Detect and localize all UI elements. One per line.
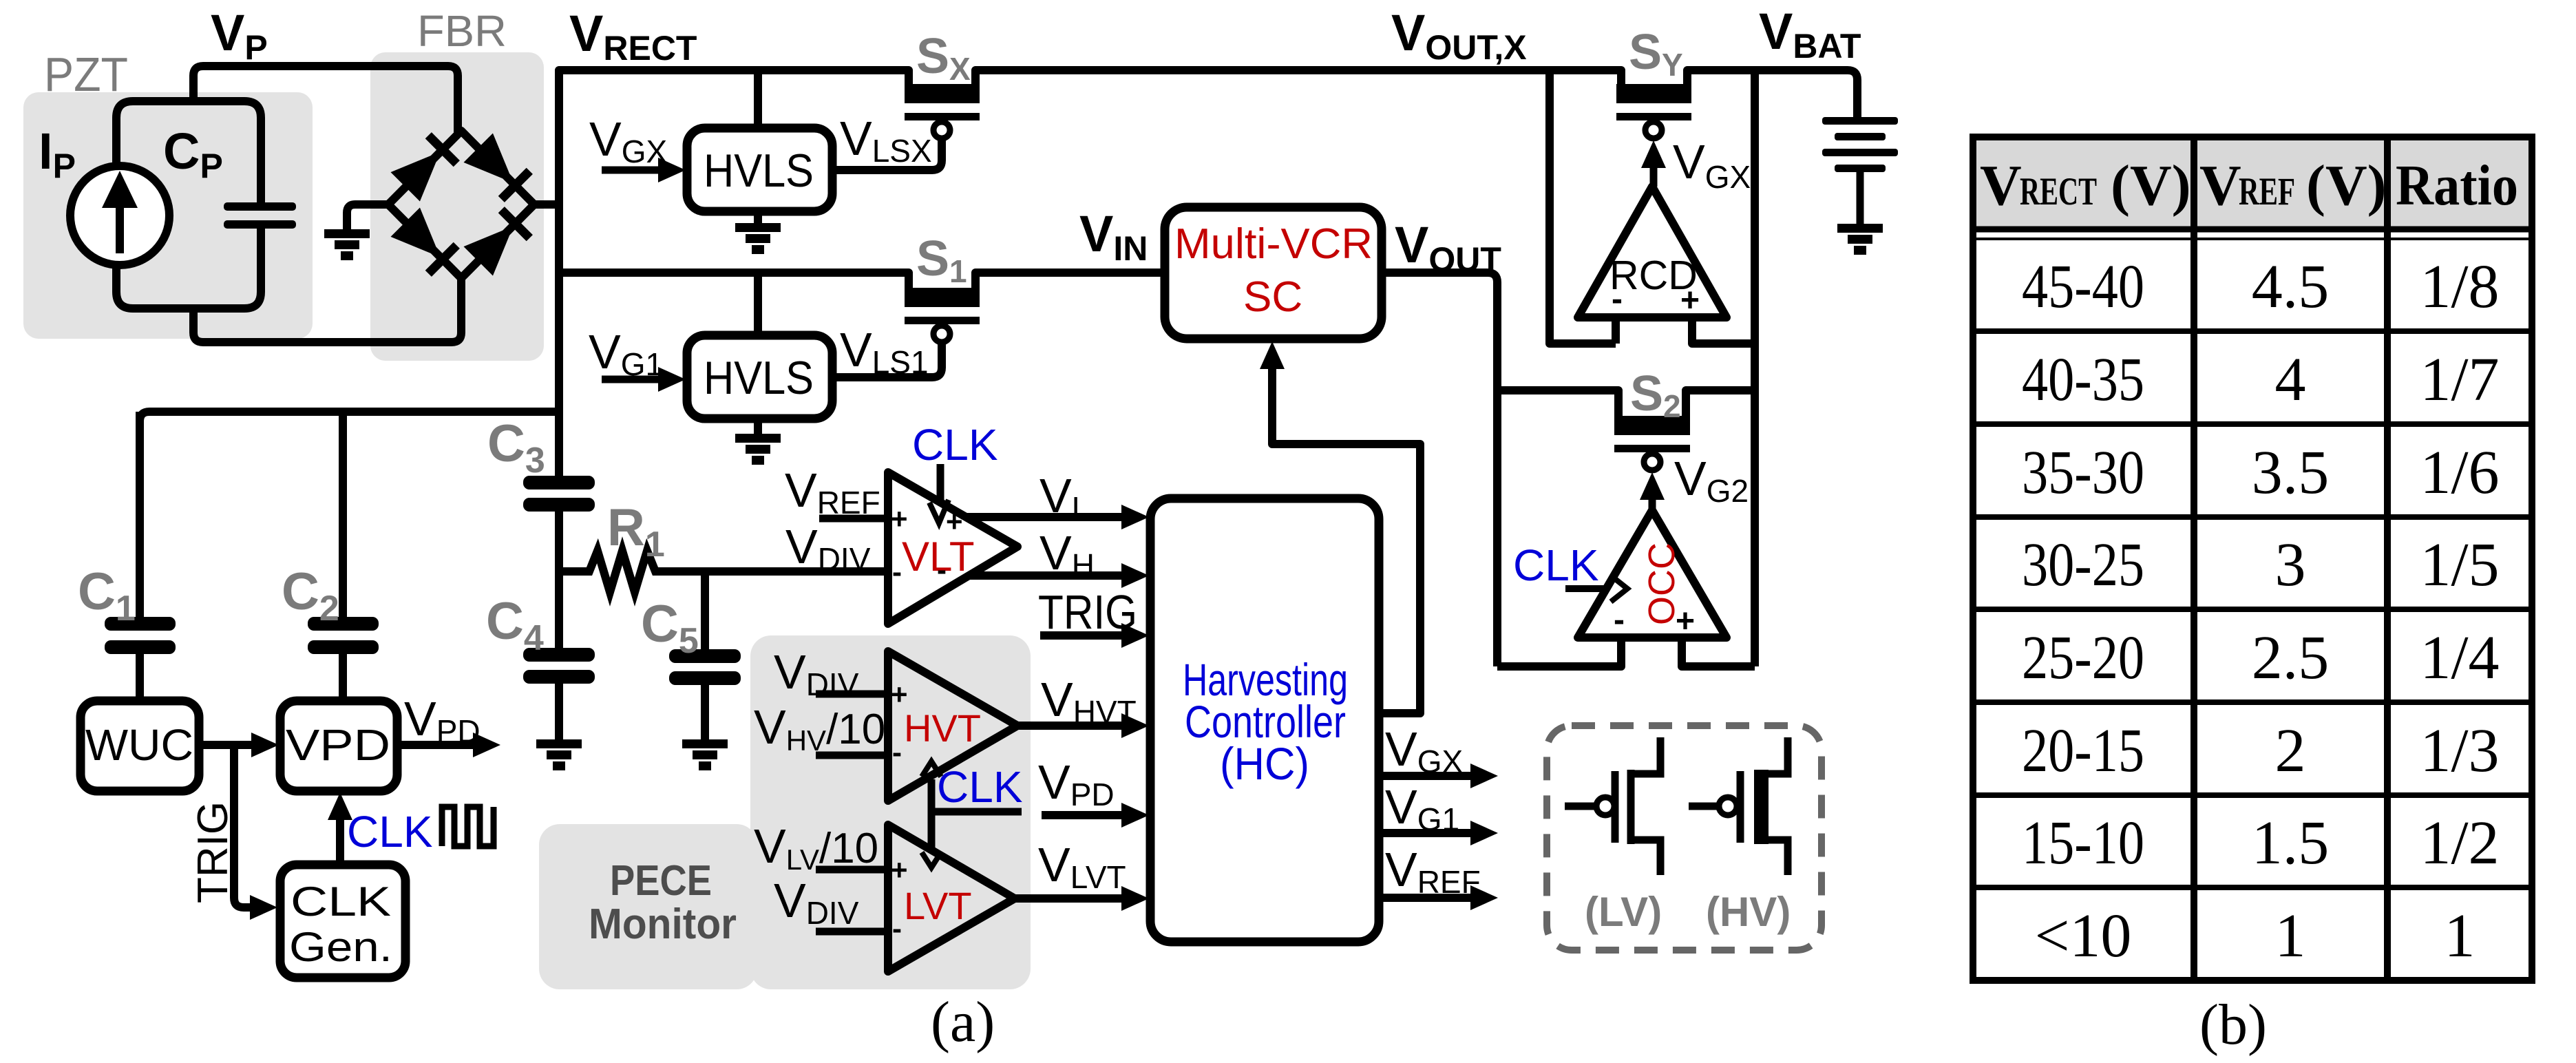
svg-text:40-35: 40-35 — [2022, 346, 2144, 414]
op-amp OCC — [1578, 510, 1727, 638]
svg-text:-: - — [892, 736, 902, 768]
table cells column1 — [2022, 253, 2144, 970]
wire VBAT bus vertical — [1751, 70, 1759, 666]
wire PZT bottom — [193, 277, 461, 342]
svg-text:1/4: 1/4 — [2420, 624, 2499, 692]
transistor SX gate bubble — [933, 122, 950, 138]
ground FBR — [324, 229, 370, 260]
wire CLK horizontal stub — [931, 808, 1022, 816]
svg-text:CLK: CLK — [347, 807, 433, 856]
transistor SY gate bubble — [1645, 122, 1662, 138]
svg-text:25-20: 25-20 — [2022, 624, 2144, 692]
svg-text:FBR: FBR — [417, 6, 507, 56]
capacitor C2 — [308, 412, 379, 702]
ground C5 — [682, 739, 728, 770]
svg-text:REF: REF — [2239, 170, 2295, 213]
ground battery — [1837, 224, 1883, 255]
op-amp RCD — [1578, 187, 1727, 317]
svg-text:(a): (a) — [931, 990, 995, 1054]
table cells column3 — [2420, 253, 2499, 970]
wire VHVT output — [1017, 722, 1128, 730]
table outer border — [1973, 137, 2532, 980]
svg-text:1: 1 — [2275, 902, 2306, 970]
svg-text:HVLS: HVLS — [704, 352, 814, 404]
diode D2 top-right — [464, 134, 534, 203]
wire VL output — [967, 513, 1128, 521]
svg-text:(V): (V) — [2111, 154, 2191, 218]
svg-text:+: + — [1680, 282, 1700, 319]
svg-text:35-30: 35-30 — [2022, 439, 2144, 507]
transistor S1 gate line — [905, 317, 980, 324]
svg-text:+: + — [946, 505, 963, 538]
svg-text:1/5: 1/5 — [2420, 531, 2499, 599]
svg-text:1/8: 1/8 — [2420, 253, 2499, 321]
block Multi-VCR SC — [1165, 207, 1382, 339]
capacitor C3 — [523, 476, 595, 512]
op-amp HVT — [888, 651, 1017, 801]
svg-text:45-40: 45-40 — [2022, 253, 2144, 321]
wire HVLS1 ground stem — [754, 211, 762, 224]
wire CLK Gen to VPD arrow — [336, 814, 344, 865]
svg-text:Gen.: Gen. — [289, 924, 392, 970]
diode D3 bottom-left — [391, 208, 461, 277]
wire HVLS1 top stem — [754, 70, 762, 129]
wire S1 to SC — [975, 273, 1166, 288]
svg-text:V: V — [2199, 154, 2241, 218]
capacitor C5 — [669, 571, 741, 741]
wire S2 left tap — [1497, 390, 1618, 417]
wire VG1 output — [1379, 829, 1476, 837]
op-amp VLT — [888, 472, 1017, 624]
svg-text:(LV): (LV) — [1585, 889, 1662, 935]
svg-text:TRIG: TRIG — [189, 801, 237, 903]
svg-text:CLK: CLK — [291, 878, 391, 925]
wire RCD left stub — [1612, 317, 1620, 344]
svg-text:1/7: 1/7 — [2420, 346, 2499, 414]
block WUC — [81, 701, 199, 791]
svg-text:4: 4 — [2275, 346, 2306, 414]
PECE gray box right part — [750, 635, 1031, 989]
svg-text:(HV): (HV) — [1706, 889, 1791, 935]
svg-text:WUC: WUC — [85, 720, 193, 770]
svg-text:2.5: 2.5 — [2252, 624, 2330, 692]
wire SY to battery — [1687, 70, 1857, 118]
wire VRECT bus vertical and top rail to SX — [559, 70, 909, 477]
svg-text:+: + — [891, 854, 908, 886]
wire HC feedback to SC — [1272, 365, 1420, 713]
transistor SX gate line — [905, 113, 980, 120]
table column lines — [2190, 137, 2197, 980]
svg-text:PZT: PZT — [44, 48, 128, 101]
wire VREF output — [1379, 894, 1476, 902]
wire FBR to ground — [347, 204, 388, 231]
ground HVLS2 — [735, 434, 781, 465]
block HVLS1 — [687, 128, 832, 211]
node VIN wire from bus to S1 — [559, 273, 909, 288]
transistor SX channel bar — [905, 84, 980, 103]
FBR gray box — [370, 52, 544, 361]
transistor LV PMOS — [1565, 737, 1660, 875]
svg-text:VPD: VPD — [286, 720, 390, 770]
transistor S2 channel bar — [1614, 416, 1690, 435]
wire WUC to VPD arrow — [199, 741, 258, 749]
svg-text:LVT: LVT — [904, 884, 972, 927]
wire VPD input stub — [1042, 811, 1128, 819]
table row lines — [1973, 328, 2532, 334]
wire C1 C2 top rail — [140, 412, 559, 421]
wire TRIG to CLK Gen — [234, 745, 257, 907]
table header background — [1976, 140, 2529, 229]
current source IP — [70, 166, 169, 265]
svg-text:-: - — [1614, 602, 1625, 638]
transistor S1 channel bar — [905, 288, 980, 307]
svg-text:20-15: 20-15 — [2022, 717, 2144, 785]
wire OCC left stub — [1497, 638, 1621, 666]
wire HVLS2 ground stem — [754, 419, 762, 435]
svg-text:30-25: 30-25 — [2022, 531, 2144, 599]
wire CLK shared vertical — [928, 779, 936, 849]
wire VLSX from HVLS to SX gate — [832, 138, 942, 170]
diode D4 bottom-right — [464, 206, 534, 275]
wire VLVT output — [1015, 894, 1128, 903]
wire OCC right stub — [1682, 638, 1755, 666]
ground C4 — [536, 739, 582, 770]
wire VREF stub — [819, 515, 888, 523]
svg-text:1/3: 1/3 — [2420, 717, 2499, 785]
transistor S2 gate bubble — [1644, 454, 1660, 470]
svg-text:(V): (V) — [2306, 154, 2387, 218]
svg-text:15-10: 15-10 — [2022, 809, 2144, 877]
svg-text:HVLS: HVLS — [704, 145, 814, 197]
wire VGX arrow into HVLS1 — [602, 167, 665, 174]
wire CLK into VLT — [937, 464, 944, 501]
resistor R1 — [559, 551, 888, 592]
wire SX to SY rail — [975, 70, 1621, 85]
wire VLS1 from HVLS2 to S1 gate — [832, 341, 942, 377]
svg-text:TRIG: TRIG — [1038, 585, 1137, 639]
wire VGX output — [1379, 772, 1476, 780]
svg-text:CLK: CLK — [912, 420, 998, 470]
svg-text:-: - — [892, 912, 902, 945]
capacitor C1 — [105, 412, 176, 702]
FBR bridge diamond — [388, 131, 534, 278]
wire C3 to R1 node — [555, 512, 563, 571]
capacitor CP — [224, 202, 296, 229]
svg-text:1.5: 1.5 — [2252, 809, 2330, 877]
svg-text:RECT: RECT — [2020, 170, 2097, 213]
wire HVLS2 top stem — [754, 273, 762, 337]
svg-text:HVT: HVT — [904, 706, 981, 750]
dashed box LV HV transistors — [1547, 726, 1822, 950]
wire VPD output arrow — [397, 741, 478, 749]
svg-text:Ratio: Ratio — [2396, 154, 2518, 218]
wire OCC output arrow to S2 gate — [1649, 497, 1656, 510]
capacitor C4 — [523, 571, 595, 741]
wire TRIG input — [1040, 631, 1128, 640]
transistor S1 gate bubble — [933, 326, 950, 342]
svg-text:Monitor: Monitor — [589, 901, 737, 948]
op-amp LVT — [888, 825, 1015, 971]
svg-text:-: - — [892, 556, 902, 588]
table cells column2 — [2252, 253, 2330, 970]
wire VOUT,X sense vertical — [1550, 70, 1616, 344]
svg-text:+: + — [891, 503, 908, 535]
wire VP top — [193, 66, 458, 132]
wire S2 right to VBAT bus — [1686, 390, 1755, 417]
svg-text:2: 2 — [2275, 717, 2306, 785]
svg-text:CLK: CLK — [937, 762, 1023, 812]
PECE gray box left part — [539, 824, 757, 989]
svg-text:-: - — [937, 554, 947, 586]
svg-text:3: 3 — [2275, 531, 2306, 599]
diode D1 top-left — [391, 131, 461, 201]
transistor S2 gate line — [1614, 445, 1690, 452]
table header double rule — [1973, 227, 2532, 233]
svg-text:+: + — [891, 678, 908, 711]
block CLK Gen — [280, 865, 405, 978]
transistor SY gate line — [1616, 113, 1691, 120]
wire VH output — [969, 571, 1128, 580]
wire RCD right stub — [1692, 317, 1755, 344]
wire PZT inner loop — [116, 101, 261, 308]
CLK waveform glyph — [442, 807, 494, 846]
svg-text:<10: <10 — [2035, 902, 2132, 970]
transistor HV PMOS — [1689, 737, 1788, 875]
svg-text:-: - — [1612, 281, 1623, 317]
wire RCD output arrow to SY gate — [1650, 165, 1658, 187]
svg-text:3.5: 3.5 — [2252, 439, 2330, 507]
ground HVLS1 — [735, 223, 781, 254]
wire VOUT from SC down — [1382, 273, 1497, 666]
svg-text:SC: SC — [1243, 273, 1302, 321]
block HVLS2 — [687, 335, 832, 419]
svg-text:(b): (b) — [2199, 993, 2267, 1057]
wire FBR output to VRECT bus — [534, 200, 559, 209]
svg-text:PECE: PECE — [610, 857, 712, 905]
svg-text:1/2: 1/2 — [2420, 809, 2499, 877]
PZT gray box — [23, 92, 313, 339]
svg-text:1: 1 — [2445, 902, 2475, 970]
wire CLK into OCC — [1565, 585, 1607, 592]
svg-text:1/6: 1/6 — [2420, 439, 2499, 507]
block VPD — [280, 701, 397, 791]
battery VBAT — [1822, 117, 1898, 225]
block Harvesting Controller — [1150, 498, 1379, 942]
wire VG1 arrow into HVLS2 — [602, 376, 665, 383]
svg-text:V: V — [1980, 154, 2022, 218]
svg-text:Multi-VCR: Multi-VCR — [1174, 220, 1373, 268]
svg-text:(HC): (HC) — [1220, 738, 1309, 789]
svg-text:CLK: CLK — [1513, 540, 1599, 590]
svg-text:4.5: 4.5 — [2252, 253, 2330, 321]
transistor SY channel bar — [1616, 84, 1691, 103]
svg-text:+: + — [1676, 603, 1695, 640]
